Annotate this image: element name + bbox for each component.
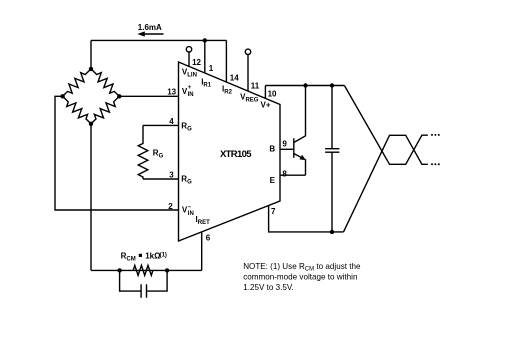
svg-text:7: 7 [271, 207, 276, 216]
svg-text:9: 9 [282, 139, 287, 148]
svg-text:1: 1 [209, 64, 214, 73]
node: RCM right junction [165, 268, 169, 272]
svg-text:E: E [270, 176, 276, 185]
transistor Q1 base bar [293, 138, 295, 158]
label V+IN [182, 85, 194, 98]
wire: twisted pair upper conductor [344, 86, 428, 165]
arrow: current direction left [137, 31, 163, 36]
svg-text:(1): (1) [160, 252, 167, 258]
svg-text:V+: V+ [261, 100, 271, 109]
transistor Q1 emitter with arrow [294, 154, 306, 176]
svg-text:10: 10 [268, 90, 277, 99]
svg-text:1.25V to 3.5V.: 1.25V to 3.5V. [243, 283, 294, 292]
wire: top rail V+ [265, 85, 344, 87]
wire: bridge right node to V+IN pin 13 [119, 95, 178, 97]
ellipsis: lower conductor continues [431, 163, 440, 165]
wire: pin 6 stub (IRET) down to RCM row [201, 232, 203, 271]
svg-text:IRET: IRET [196, 215, 211, 226]
svg-text:14: 14 [230, 74, 239, 83]
resistor RCM [133, 265, 153, 275]
svg-text:13: 13 [167, 87, 176, 96]
svg-text:IN: IN [188, 92, 194, 98]
svg-text:RG: RG [181, 174, 192, 185]
wire: bridge bottom node down to RCM row [90, 124, 92, 271]
svg-text:RG: RG [181, 122, 192, 133]
svg-text:11: 11 [251, 82, 260, 91]
svg-text:4: 4 [169, 117, 174, 126]
svg-text:8: 8 [282, 170, 287, 179]
capacitor C1 plates [325, 149, 339, 153]
terminal: VREG pin 11 open circle [245, 49, 250, 54]
node: bridge bottom junction [89, 122, 93, 126]
wire: 1.6mA loop top wire [91, 39, 226, 41]
wire: bridge top vertical [90, 40, 92, 69]
capacitor CCM left lead [120, 270, 142, 291]
svg-text:2: 2 [168, 202, 173, 211]
wire: pin 10 stub (V+) up to top rail [264, 86, 266, 99]
capacitor CCM plates [141, 284, 146, 298]
svg-text:6: 6 [206, 233, 211, 242]
node: collector to top rail [303, 83, 307, 87]
transistor Q1 collector [294, 86, 306, 143]
resistor RG external [138, 125, 148, 179]
wire: pin 7 stub down then right (bottom rail) [269, 206, 344, 232]
wire: pin 8 stub (E) [280, 174, 306, 176]
capacitor C1 top lead [331, 86, 333, 149]
wire: twisted pair lower conductor [344, 135, 428, 232]
ellipsis: upper conductor continues [431, 134, 440, 136]
svg-text:XTR105: XTR105 [220, 149, 252, 160]
svg-text:12: 12 [192, 58, 201, 67]
resistor: bridge top-right arm [91, 69, 119, 96]
note text [243, 262, 361, 292]
label RCM = 1k ohm (1) [121, 252, 167, 263]
node: cap top junction [330, 83, 334, 87]
wire: bridge left node to V-IN pin 2 [55, 96, 179, 210]
capacitor C1 bottom lead [331, 152, 333, 232]
node: bridge top junction [89, 67, 93, 71]
svg-text:IN: IN [188, 211, 194, 217]
svg-text:NOTE: (1) Use RCM to adjust th: NOTE: (1) Use RCM to adjust the [243, 262, 361, 273]
node: RCM left junction [117, 268, 121, 272]
op-amp U1: XTR105 body [179, 62, 281, 241]
wire: pin 12 stub (VLIN) [188, 52, 190, 66]
terminal: pin 12 open circle [186, 47, 191, 52]
capacitor CCM right lead [147, 270, 168, 291]
svg-text:IR2: IR2 [222, 84, 233, 95]
wire: RCM row [91, 269, 202, 271]
node: cap bottom junction [330, 230, 334, 234]
resistor: bridge bottom-left arm [63, 96, 91, 124]
node: bridge left junction [60, 94, 64, 98]
label V-IN [182, 204, 194, 216]
svg-text:RCM: RCM [121, 252, 136, 263]
resistor: bridge bottom-right arm [91, 96, 119, 124]
wire: pin 1 stub (IR1) [204, 40, 206, 73]
node: bridge right junction [117, 94, 121, 98]
resistor: bridge top-left arm [63, 69, 91, 96]
wire: pin 3 stub [143, 178, 179, 180]
wire: pin 14 stub (IR2) [225, 40, 227, 82]
wire: pin 4 stub [143, 124, 179, 126]
svg-text:B: B [269, 145, 275, 154]
svg-text:1.6mA: 1.6mA [138, 23, 162, 32]
wire: pin 11 stub (VREG) [247, 55, 249, 92]
svg-text:–: – [188, 204, 192, 210]
svg-text:IR1: IR1 [201, 77, 212, 88]
node: junction pin1 / top wire [203, 38, 207, 42]
wire: pin 9 stub (B) [280, 148, 294, 150]
svg-text:+: + [188, 85, 192, 91]
svg-text:common-mode voltage to within: common-mode voltage to within [243, 272, 357, 281]
svg-text:RG: RG [153, 148, 164, 159]
svg-text:3: 3 [169, 170, 174, 179]
